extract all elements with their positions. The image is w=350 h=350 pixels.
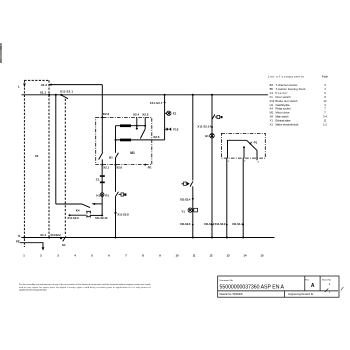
node X11-S2.3: [180, 222, 194, 226]
svg-text:X11-S2.3: X11-S2.3: [180, 222, 191, 226]
node L (incoming supply): [18, 83, 26, 88]
node row2 left: [115, 139, 117, 141]
wire PE with earth arrow: [20, 243, 45, 251]
svg-text:X11-S1.4: X11-S1.4: [232, 222, 243, 226]
svg-text:X11-S2.10: X11-S2.10: [95, 216, 108, 220]
svg-text:11: 11: [324, 119, 327, 123]
brake test element F12: [165, 127, 179, 131]
switch S4 in N bus: [60, 236, 66, 247]
switch S2.1 (main switch contact): [60, 90, 73, 99]
component list table: [268, 74, 329, 126]
pressure switch on X2.6 lead: [116, 192, 127, 197]
node X11-S2.2b: [215, 222, 228, 226]
svg-text:12: 12: [210, 254, 213, 258]
svg-text:X2.6: X2.6: [116, 166, 122, 170]
node X2.6 on box bottom: [115, 164, 117, 166]
svg-text:PE: PE: [148, 166, 152, 170]
contact K4.1 in N return with actuation arrow: [82, 203, 102, 208]
svg-text:A: A: [311, 283, 315, 289]
svg-text:Mains terminal block: Mains terminal block: [276, 123, 300, 127]
fold mark right of title block: [341, 287, 344, 291]
node X11-S2.2: [204, 222, 215, 226]
svg-text:X1: X1: [35, 154, 39, 158]
wire H1 to N row: [101, 197, 103, 216]
svg-text:Material No. 55000000: Material No. 55000000: [220, 293, 244, 296]
svg-text:13: 13: [227, 254, 230, 258]
relay box P1 (dash-dot): [221, 133, 265, 158]
svg-text:X11-S2.1: X11-S2.1: [60, 90, 73, 94]
node X11-S2.8: [114, 212, 129, 216]
terminal X2.4 stub: [136, 117, 138, 129]
svg-text:B5: B5: [270, 87, 274, 91]
svg-text:S4: S4: [62, 243, 66, 247]
svg-text:X11-S2.9: X11-S2.9: [67, 216, 79, 220]
svg-text:K4: K4: [76, 208, 80, 212]
svg-text:3-4: 3-4: [323, 115, 327, 119]
svg-text:C1: C1: [270, 91, 274, 95]
contact K2.2 inside motor box: [99, 116, 104, 164]
svg-text:Document No: Document No: [220, 279, 234, 282]
svg-text:Relay socket: Relay socket: [276, 107, 291, 111]
svg-text:Y1: Y1: [270, 119, 274, 123]
terminal X2.3 stub with selector blade: [140, 117, 146, 138]
wire X2.6 drop to N bus: [115, 165, 117, 192]
wire C1 to H1: [101, 183, 103, 193]
svg-text:Motor drive: Motor drive: [276, 111, 291, 115]
screen-edge grey sliver: [0, 43, 2, 63]
svg-text:X1.4: X1.4: [40, 233, 46, 237]
svg-text:X2.3: X2.3: [142, 112, 149, 116]
wire L1 feed with left arrow (X1.2 to K2.2): [48, 84, 102, 118]
svg-text:X11-S2.8: X11-S2.8: [117, 212, 129, 216]
valve Y1: [181, 208, 197, 213]
lamp H1: [205, 133, 214, 138]
svg-text:Exhaust valve: Exhaust valve: [276, 119, 292, 123]
connector K4: [67, 208, 108, 220]
wire relay pin1 to N bus: [226, 158, 228, 237]
svg-text:Y1: Y1: [181, 209, 185, 213]
svg-text:15: 15: [261, 254, 264, 258]
svg-text:K2.2: K2.2: [103, 112, 110, 116]
node common at N bus: [242, 236, 244, 238]
node X2.6 at N bus: [114, 236, 116, 238]
wire path-11 drop (door circuit): [192, 95, 194, 238]
svg-text:Engineering Revision 01: Engineering Revision 01: [289, 293, 315, 296]
mechanical linkage (dashed) of switch S2: [64, 99, 66, 236]
svg-text:X2.4: X2.4: [133, 112, 140, 116]
svg-text:H1: H1: [270, 103, 274, 107]
wire path-12 drop (lamp circuit): [211, 95, 213, 238]
svg-text:X11-S2.4: X11-S2.4: [180, 198, 191, 202]
node X11-S2.14: [197, 125, 213, 129]
node X11-S2.4: [180, 198, 194, 202]
svg-text:14: 14: [244, 254, 247, 258]
node X11-S1.4: [232, 222, 244, 226]
svg-text:PE: PE: [16, 240, 20, 244]
relay contact P1: [228, 140, 258, 158]
node path-12 at N bus: [211, 236, 213, 238]
svg-text:X11-S2.2: X11-S2.2: [204, 222, 215, 226]
svg-text:X1: X1: [270, 123, 274, 127]
svg-text:S4: S4: [270, 115, 274, 119]
svg-text:R1: R1: [105, 193, 109, 197]
node X2.1 on box bottom: [101, 164, 103, 166]
capacitor C1: [96, 175, 105, 183]
svg-text:N: N: [18, 234, 20, 238]
svg-text:Sheet No: Sheet No: [322, 278, 332, 281]
svg-text:K4: K4: [270, 107, 274, 111]
svg-text:H1: H1: [205, 134, 209, 138]
title block texts: [220, 278, 332, 296]
node X11-S2.7 tick: [150, 101, 166, 105]
node X1.4 junction: [48, 236, 50, 238]
svg-text:L: L: [18, 85, 20, 89]
wire N drop from bus to K4 row: [56, 95, 83, 204]
svg-text:55000000037360 ASP EN A: 55000000037360 ASP EN A: [220, 285, 285, 291]
title block: [218, 276, 339, 297]
indicator H1 (on motor lead): [96, 193, 109, 198]
svg-text:10: 10: [176, 254, 179, 258]
svg-text:X11-S2.14: X11-S2.14: [197, 125, 211, 129]
svg-text:M1: M1: [130, 151, 135, 155]
svg-text:Main switch: Main switch: [276, 115, 290, 119]
svg-text:Door switch: Door switch: [276, 95, 292, 99]
node pin1 at N bus: [226, 236, 228, 238]
switch S2.2 with actuator: [212, 115, 223, 120]
svg-text:List of components: List of components: [268, 74, 305, 78]
svg-text:1-2: 1-2: [323, 123, 327, 127]
node PE on box bottom: [144, 164, 146, 166]
wire winding feed vertical: [115, 126, 117, 153]
pin 2: [257, 158, 260, 164]
svg-text:X2.5: X2.5: [153, 135, 160, 139]
wire relay common to N bus: [242, 158, 244, 237]
svg-text:Path: Path: [322, 74, 329, 78]
winding row 1 with resistor element: [116, 124, 146, 127]
svg-text:F12: F12: [270, 99, 275, 103]
svg-text:B4: B4: [270, 83, 274, 87]
wire X2.5 to lamp branch: [152, 95, 165, 140]
svg-text:H1: H1: [96, 193, 100, 197]
svg-text:M1: M1: [270, 111, 274, 115]
svg-text:B1: B1: [109, 155, 113, 159]
svg-text:repair this terminal. Check pe: repair this terminal. Check per attendan…: [19, 288, 47, 291]
svg-text:F12: F12: [173, 127, 179, 131]
lamp E1: [165, 111, 177, 116]
svg-text:F1: F1: [270, 95, 274, 99]
disclaimer paragraph: [19, 283, 151, 291]
wire bottom bus N: [21, 237, 274, 239]
node relay common: [243, 146, 245, 158]
svg-text:Brake test switch: Brake test switch: [276, 99, 299, 103]
wire top bus L: [22, 94, 269, 96]
svg-text:Positor: Positor: [276, 91, 288, 95]
svg-text:X11-S2.2: X11-S2.2: [215, 222, 226, 226]
svg-text:X11-S2.2: X11-S2.2: [50, 233, 61, 237]
svg-text:X1.2: X1.2: [41, 83, 48, 87]
motor unit box M1 (dash-dot): [96, 117, 152, 164]
svg-text:X11-S2.7: X11-S2.7: [150, 101, 163, 105]
winding row 2 with resistor element: [116, 139, 152, 142]
svg-text:12: 12: [324, 99, 327, 103]
svg-text:and for any repair for spare p: and for any repair for spare parts for d…: [19, 286, 151, 289]
svg-text:E1: E1: [173, 112, 177, 116]
svg-text:For the assembly and maintenan: For the assembly and maintenance of any …: [19, 283, 151, 286]
svg-text:Coaching line: Coaching line: [276, 103, 291, 107]
svg-text:C1: C1: [96, 178, 100, 182]
svg-text:X1.1: X1.1: [40, 90, 47, 94]
node junctions on top bus: [48, 94, 213, 96]
svg-text:T-station bearing block: T-station bearing block: [276, 87, 307, 91]
wire X2.1 drop below box: [101, 165, 103, 175]
thermal contact B1: [109, 153, 119, 165]
node X1 edge at N bus: [23, 237, 25, 239]
svg-text:P1: P1: [254, 140, 258, 144]
terminal-strip box X1 (dashed): [24, 80, 49, 247]
node path-11 at N bus: [192, 236, 194, 238]
svg-text:T-channel counter: T-channel counter: [276, 83, 298, 87]
svg-text:X2.1: X2.1: [103, 166, 109, 170]
door switch F1 with actuator: [182, 181, 194, 186]
